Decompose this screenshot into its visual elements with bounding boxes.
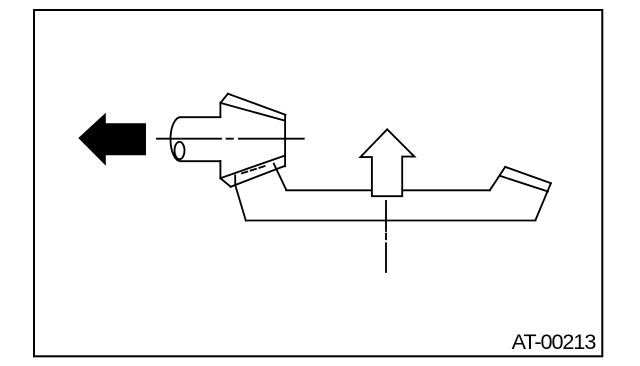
bracket top edge (left of arrow) bbox=[286, 189, 372, 191]
cone bottom band upper edge bbox=[220, 156, 285, 179]
cone right edge bbox=[284, 115, 286, 167]
horizontal centerline (dash-dot) bbox=[157, 138, 304, 140]
bracket end band lower edge bbox=[500, 176, 548, 192]
black direction arrow (left) bbox=[78, 113, 146, 166]
tube body bbox=[181, 117, 221, 161]
bracket end band upper edge bbox=[505, 167, 551, 183]
cone top band lower edge bbox=[220, 103, 284, 121]
cone top-left chamfer bbox=[220, 94, 228, 103]
bracket bottom edge bbox=[246, 220, 536, 222]
cone top band upper edge bbox=[228, 94, 286, 115]
cone bottom band lower edge bbox=[231, 166, 285, 187]
vertical centerline (dash-dot) bbox=[385, 201, 387, 272]
svg-text:AT-00213: AT-00213 bbox=[512, 329, 597, 354]
bracket right rise bbox=[490, 167, 505, 190]
hollow direction arrow (up) bbox=[360, 129, 414, 196]
bracket end edge bbox=[536, 183, 551, 220]
cone bottom-left chamfer bbox=[220, 178, 230, 187]
tube end cap arc bbox=[171, 117, 181, 161]
hidden edge (dashed) bbox=[242, 166, 265, 173]
bracket top edge (right of arrow) bbox=[402, 189, 490, 191]
bracket left end edge bbox=[235, 175, 246, 220]
cone left step (bottom) bbox=[219, 161, 221, 178]
cone left step (top) bbox=[219, 103, 221, 117]
tube opening ellipse bbox=[175, 142, 185, 159]
bracket left slant edge bbox=[274, 164, 286, 190]
